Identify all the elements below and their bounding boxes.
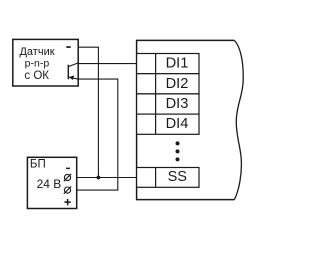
svg-text:DI4: DI4 bbox=[166, 116, 189, 132]
wire: PSU minus to SS terminal bbox=[71, 177, 137, 179]
PSU terminal 2 (Ø plus) bbox=[64, 187, 70, 193]
wire: collector output to DI1 bbox=[78, 63, 136, 65]
minus terminal label (PSU) bbox=[66, 168, 70, 170]
module torn edge curve bbox=[234, 40, 243, 199]
plus terminal label (PSU) bbox=[64, 201, 70, 203]
module outline (DI input module, torn right edge) bbox=[137, 40, 235, 199]
sensor label text bbox=[19, 46, 54, 82]
svg-text:Датчик: Датчик bbox=[19, 46, 54, 58]
PSU label text bbox=[30, 158, 61, 191]
svg-text:SS: SS bbox=[168, 169, 188, 185]
wire: emitter to +24V bbox=[71, 79, 118, 190]
svg-text:24 В: 24 В bbox=[37, 177, 62, 191]
terminal row DI3 bbox=[137, 94, 199, 114]
terminal row DI4 bbox=[137, 114, 199, 134]
terminal row DI2 bbox=[137, 74, 199, 94]
terminal row DI1 bbox=[137, 54, 199, 74]
ellipsis dots (continuation of inputs) bbox=[176, 141, 180, 145]
PSU terminal 1 (Ø minus) bbox=[64, 174, 70, 180]
svg-text:с ОК: с ОК bbox=[24, 70, 49, 82]
svg-text:DI2: DI2 bbox=[166, 76, 189, 92]
terminal labels DI1-DI4, SS bbox=[166, 56, 189, 186]
svg-text:БП: БП bbox=[30, 158, 46, 170]
transistor Q1 emitter arrow bbox=[69, 75, 75, 80]
junction dot (minus rail) bbox=[97, 176, 101, 180]
wire: sensor minus to SS rail (vertical drop at x=98.4) bbox=[78, 47, 98, 177]
terminal row SS bbox=[137, 168, 199, 188]
transistor Q1 (p-n-p, open collector) base bar bbox=[67, 65, 69, 80]
svg-text:DI3: DI3 bbox=[166, 96, 189, 112]
power supply box "БП 24 В" bbox=[27, 157, 76, 208]
minus terminal label (sensor) bbox=[66, 46, 70, 48]
transistor Q1 collector lead bbox=[68, 63, 78, 67]
svg-text:p-n-p: p-n-p bbox=[25, 58, 50, 70]
svg-text:DI1: DI1 bbox=[166, 56, 189, 72]
transistor Q1 emitter lead bbox=[68, 77, 78, 79]
sensor box U1 "Датчик p-n-p с ОК" bbox=[13, 39, 78, 86]
